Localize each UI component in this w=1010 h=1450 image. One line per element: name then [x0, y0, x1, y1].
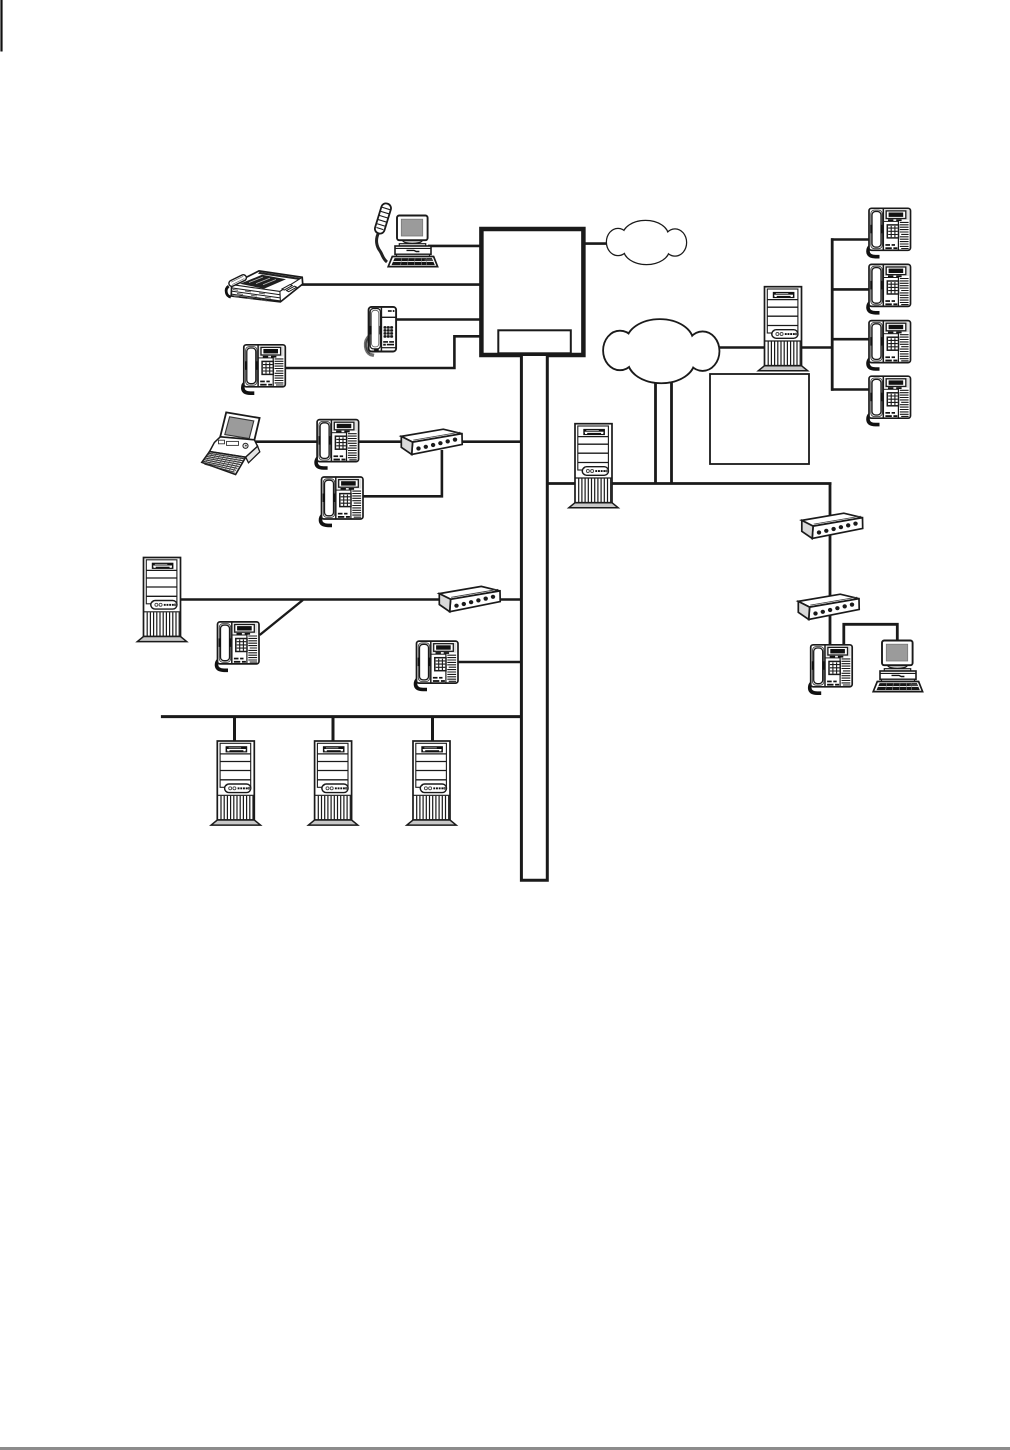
phone T2: [243, 345, 285, 393]
server S6 bottom: [407, 741, 456, 825]
PBX main cabinet: [481, 229, 583, 355]
server S4 bottom: [211, 741, 260, 825]
handset of PC1 phone terminal: [374, 202, 392, 262]
PC1 desktop computer: [388, 216, 437, 267]
wire branch to phone TB: [831, 288, 873, 291]
wire laptop to phone T3 to hub H1 to trunk: [250, 440, 521, 443]
wire phone T2 to PBX: [278, 336, 482, 368]
page margin tick top-left: [0, 0, 2, 52]
wire lower right riser through hubs H3 H4 to phone T7: [829, 484, 832, 653]
wire trunk to right riser: [547, 482, 831, 485]
server S1 left: [137, 558, 186, 642]
phone TC: [868, 321, 911, 369]
wire phone T6 to trunk: [450, 661, 521, 664]
phone T7: [810, 645, 853, 693]
fax machine: [226, 271, 303, 302]
phone TD: [868, 376, 911, 424]
server S5 bottom: [308, 741, 357, 825]
wire branch to phone TD: [831, 388, 873, 391]
server S3 right: [758, 287, 807, 371]
wire fax to PBX: [290, 283, 482, 286]
PC2 desktop computer: [873, 641, 922, 692]
wire phone T4 to hub H1: [356, 450, 442, 496]
phone T5: [217, 622, 260, 670]
phone T4: [321, 477, 364, 525]
wire LAN bus bottom: [161, 715, 522, 718]
wire bus drop to server S4: [233, 716, 236, 742]
wire cloud C2 leg left: [654, 378, 657, 484]
wire PBX to cloud C1: [584, 242, 610, 245]
wire bus drop to server S6: [431, 716, 434, 742]
cloud C2 private network: [604, 320, 719, 382]
phone TA: [868, 208, 911, 256]
phone T1 analogue: [365, 307, 396, 356]
wire phone T7 to PC2 bracket: [844, 624, 898, 650]
server S2 middle: [569, 424, 618, 508]
trunk conduit pipe: [521, 356, 547, 880]
wire bus drop to server S5: [332, 716, 335, 742]
remote site box: [710, 374, 809, 464]
footer rule bar: [0, 1447, 1010, 1450]
wire branch to phone TA: [831, 238, 873, 241]
phone T3: [316, 420, 359, 468]
hub H4: [798, 594, 859, 619]
wire branch to phone TC: [831, 338, 873, 341]
wire phone T5 drop diagonal: [260, 600, 303, 635]
wire phone T1 to PBX: [390, 318, 482, 321]
laptop: [202, 412, 260, 474]
phone T6: [416, 641, 459, 689]
phone TB: [868, 264, 911, 312]
hub H3: [802, 513, 863, 538]
hub H2: [439, 586, 500, 611]
wire cloud C2 to server S2 to phone riser: [714, 346, 832, 349]
wire server S1 to hub H2 to trunk: [178, 598, 521, 601]
PBX expansion slot box: [498, 330, 571, 353]
cloud C1 public network: [607, 221, 686, 264]
wire cloud C2 leg right: [670, 378, 673, 484]
hub H1: [401, 429, 462, 454]
wire PC1 to PBX: [428, 245, 482, 248]
wire right phone riser vertical: [831, 238, 834, 390]
